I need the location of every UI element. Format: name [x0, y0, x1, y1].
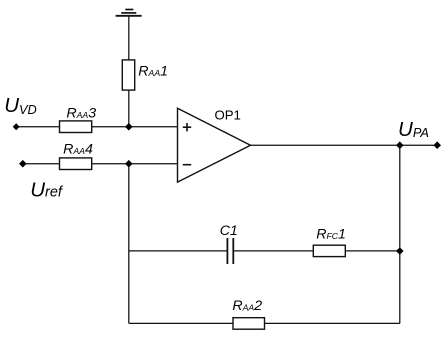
wire Uref to op-amp - input [23, 163, 178, 165]
terminal Uref [19, 160, 27, 168]
capacitor C1 [227, 238, 233, 264]
wire UVD to op-amp + input [16, 126, 177, 128]
resistor RAA2 [233, 318, 265, 330]
wire ground to RAA1 [128, 16, 130, 60]
wire middle feedback left segment to capacitor [129, 250, 228, 252]
svg-text:RAA3: RAA3 [66, 105, 96, 121]
node B junction [125, 160, 133, 168]
svg-text:Uref: Uref [30, 178, 64, 201]
resistor RAA1 [122, 60, 134, 90]
op-amp minus pin mark [183, 164, 191, 166]
node D junction [396, 247, 404, 255]
wire node B down to bottom feedback [128, 164, 130, 324]
terminal UVD [13, 123, 20, 130]
svg-text:RAA1: RAA1 [138, 63, 168, 79]
svg-text:RFC1: RFC1 [316, 227, 346, 243]
terminal UPA [433, 141, 441, 149]
op-amp plus pin mark [183, 123, 191, 131]
svg-text:OP1: OP1 [215, 108, 241, 123]
svg-text:UPA: UPA [398, 118, 429, 141]
wire bottom feedback [129, 322, 400, 324]
wire node D down to bottom feedback [399, 251, 401, 323]
wire RAA1 to node A [128, 90, 130, 127]
op-amp OP1 [178, 108, 251, 182]
node A junction [125, 123, 133, 131]
wire node C down to node D [399, 145, 401, 251]
node C junction [396, 141, 404, 149]
resistor RAA4 [60, 158, 92, 170]
svg-text:RAA2: RAA2 [232, 298, 262, 314]
resistor RFC1 [313, 245, 345, 256]
ground [116, 10, 142, 16]
resistor RAA3 [60, 121, 92, 133]
svg-text:UVD: UVD [4, 94, 37, 117]
wire capacitor to RFC1 to node D [233, 250, 399, 252]
wire op-amp output to UPA terminal [251, 144, 438, 146]
svg-text:C1: C1 [220, 223, 238, 239]
svg-text:RAA4: RAA4 [63, 141, 93, 157]
